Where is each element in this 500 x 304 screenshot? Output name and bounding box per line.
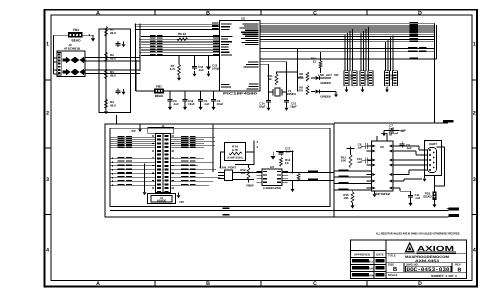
svg-text:A: A (96, 281, 100, 287)
svg-text:+5P: +5P (400, 129, 405, 133)
svg-text:49.9: 49.9 (110, 56, 116, 60)
svg-text:1K AMP SIGNAL: 1K AMP SIGNAL (227, 157, 243, 160)
svg-text:3.3K: 3.3K (347, 77, 354, 81)
svg-text:18pF: 18pF (290, 105, 297, 109)
svg-text:ELC: ELC (369, 261, 375, 264)
svg-text:D: D (418, 10, 422, 16)
svg-text:SIZE: SIZE (388, 263, 394, 267)
svg-text:A: A (96, 10, 100, 16)
svg-text:4.7k: 4.7k (170, 67, 176, 71)
svg-text:.1uF: .1uF (415, 196, 421, 200)
svg-text:U5: U5 (380, 145, 384, 149)
svg-text:18pF: 18pF (259, 105, 266, 109)
svg-text:10uF: 10uF (188, 102, 195, 106)
svg-text:SHEET 1 OF 1: SHEET 1 OF 1 (431, 274, 457, 278)
svg-text:3: 3 (46, 177, 49, 183)
svg-text:HDR30: HDR30 (157, 199, 167, 203)
svg-text:U3: U3 (270, 165, 274, 169)
svg-text:C: C (313, 10, 317, 16)
svg-text:ALL RESISTOR VALUES ARE IN OHM: ALL RESISTOR VALUES ARE IN OHMS +5% UNLE… (376, 232, 460, 236)
svg-text:.1uF: .1uF (357, 160, 363, 164)
svg-text:.1uF: .1uF (285, 150, 291, 154)
svg-text:49.9: 49.9 (110, 31, 116, 35)
svg-text:4.7K: 4.7K (232, 148, 239, 152)
svg-text:3.3K: 3.3K (363, 77, 370, 81)
svg-text:B: B (206, 281, 210, 287)
svg-text:FB1: FB1 (156, 84, 162, 88)
svg-text:+5P: +5P (333, 73, 338, 77)
svg-text:470: 470 (298, 89, 303, 93)
svg-text:GREEN: GREEN (320, 81, 331, 85)
svg-text:LNK_ACT: LNK_ACT (318, 73, 332, 77)
svg-text:CA82C250: CA82C250 (263, 186, 281, 190)
svg-text:C: C (313, 281, 317, 287)
svg-text:TITLE: TITLE (388, 254, 396, 258)
svg-text:BEAD: BEAD (71, 39, 81, 43)
svg-text:3: 3 (473, 177, 476, 183)
svg-text:BEAD: BEAD (423, 195, 431, 199)
svg-text:RW: RW (369, 275, 374, 278)
svg-text:TAB: TAB (369, 268, 374, 271)
svg-text:.1uF: .1uF (198, 68, 204, 72)
svg-text:VREF: VREF (246, 184, 254, 188)
svg-text:10uF: 10uF (217, 102, 224, 106)
svg-text:120: 120 (241, 171, 246, 175)
svg-text:.1uF: .1uF (204, 102, 210, 106)
svg-text:R6 22: R6 22 (178, 32, 186, 36)
svg-text:D: D (418, 281, 422, 287)
svg-text:1: 1 (473, 42, 476, 48)
svg-text:.1uF: .1uF (406, 146, 412, 150)
svg-text:UART: UART (429, 142, 437, 146)
svg-text:GREEN: GREEN (320, 94, 331, 98)
svg-text:PIC18F4580: PIC18F4580 (223, 92, 257, 96)
svg-text:49.9: 49.9 (110, 103, 116, 107)
svg-text:10K: 10K (341, 159, 347, 163)
svg-text:APPROVED: APPROVED (354, 252, 370, 256)
svg-text:+5P: +5P (130, 129, 135, 133)
svg-text:4: 4 (46, 248, 49, 254)
svg-text:4: 4 (473, 248, 476, 254)
svg-text:SCALE: SCALE (388, 273, 398, 277)
svg-text:2: 2 (46, 111, 49, 117)
svg-text:FB2: FB2 (73, 28, 79, 32)
svg-text:25MHz: 25MHz (287, 92, 297, 96)
svg-text:CAN_PORT: CAN_PORT (220, 166, 237, 170)
svg-text:22: 22 (268, 77, 272, 81)
svg-text:DATE: DATE (376, 252, 384, 256)
svg-text:470: 470 (298, 75, 303, 79)
svg-text:U2: U2 (241, 17, 245, 21)
svg-text:.1uF: .1uF (173, 102, 179, 106)
svg-text:B: B (206, 10, 210, 16)
svg-text:10K: 10K (343, 196, 349, 200)
svg-text:+5P: +5P (179, 200, 184, 204)
svg-text:C7: C7 (389, 124, 393, 128)
svg-text:REV: REV (455, 263, 461, 267)
svg-text:SP3232: SP3232 (375, 192, 390, 196)
svg-text:49.9: 49.9 (110, 73, 116, 77)
svg-text:22: 22 (313, 59, 317, 63)
svg-text:.1uF: .1uF (357, 146, 363, 150)
svg-text:ATECHB1B: ATECHB1B (64, 47, 81, 51)
svg-text:1: 1 (46, 42, 49, 48)
svg-text:BEAD: BEAD (155, 94, 164, 98)
svg-text:2: 2 (473, 111, 476, 117)
svg-text:3.3K: 3.3K (388, 77, 395, 81)
